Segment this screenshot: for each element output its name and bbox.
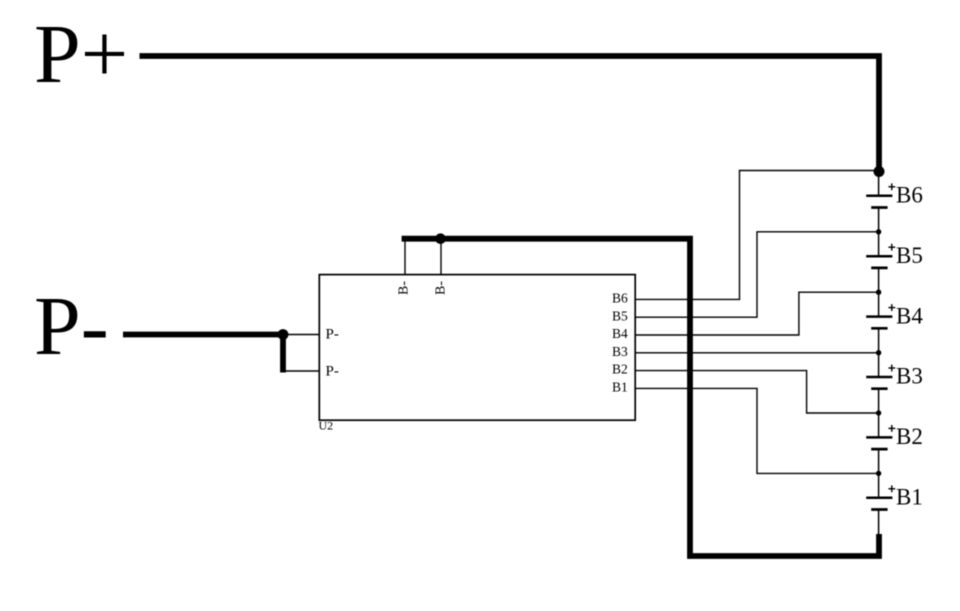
wire P- thick: from P- label right, then short drop to second pin: [123, 335, 283, 373]
wire stub B- pin 2 to IC top: [440, 239, 442, 275]
wire B5 sense: IC pin B5 to node between B6 and B5: [635, 232, 878, 317]
svg-text:B1: B1: [896, 485, 923, 510]
battery B1 plus mark: [888, 485, 895, 492]
node junction dot between B3 and B2: [876, 410, 881, 415]
wire stub P- to IC pin 2: [283, 370, 319, 372]
battery B6 plus mark: [888, 183, 895, 190]
node junction dot between B2 and B1: [876, 471, 881, 476]
wire B1 negative down to thick B- net: [878, 510, 880, 537]
svg-text:B4: B4: [896, 303, 923, 328]
wire B5 to node: [878, 268, 880, 317]
svg-text:P+: P+: [34, 8, 128, 101]
svg-text:B3: B3: [612, 344, 628, 359]
wire B4 sense: IC pin B4 to node between B5 and B4: [635, 292, 878, 335]
battery B2 plus mark: [888, 425, 895, 432]
node junction dot at B6 positive / P+ wire: [874, 166, 885, 177]
wire P+ thick: from P+ label right along top, down to battery stack top: [140, 56, 880, 171]
svg-text:B2: B2: [612, 362, 628, 377]
node junction dot on P- wire: [278, 329, 289, 340]
wire stub B- pin 1 to IC top: [404, 239, 406, 275]
battery B2: [866, 437, 892, 449]
svg-text:P-: P-: [326, 327, 339, 343]
wire B4 to node: [878, 328, 880, 377]
svg-text:B4: B4: [612, 326, 628, 341]
wire B2 sense: IC pin B2 to node between B3 and B2: [635, 371, 878, 413]
wire B1 sense: IC pin B1 to node between B2 and B1: [635, 388, 878, 473]
svg-text:B-: B-: [434, 281, 449, 295]
wire stub P- to IC pin 1: [283, 334, 319, 336]
node junction dot between B5 and B4: [876, 290, 881, 295]
battery B1: [866, 498, 892, 510]
battery B4 plus mark: [888, 304, 895, 311]
node junction dot between B6 and B5: [876, 229, 881, 234]
wire B3 sense: IC pin B3 straight to node between B4 and B3: [635, 352, 878, 354]
battery B4: [866, 317, 892, 329]
svg-text:P-: P-: [34, 280, 109, 373]
svg-text:P-: P-: [326, 364, 339, 380]
svg-text:B-: B-: [397, 281, 412, 295]
svg-text:B5: B5: [612, 308, 628, 323]
svg-text:B5: B5: [896, 243, 923, 268]
node junction dot between B4 and B3: [876, 350, 881, 355]
wire B6 sense: IC pin B6 to top junction: [635, 171, 874, 300]
battery B5 plus mark: [888, 244, 895, 251]
battery B3 plus mark: [888, 365, 895, 372]
wire B6 to node: [878, 208, 880, 257]
wire B- thick net: from IC top pins right, down, along bottom, up to battery B1 negative: [402, 239, 879, 556]
battery B6: [866, 196, 892, 208]
battery B3: [866, 377, 892, 389]
svg-text:B6: B6: [896, 183, 923, 208]
wire B2 to node: [878, 449, 880, 498]
wire from junction down to battery B6: [878, 171, 880, 196]
svg-text:B3: B3: [896, 364, 923, 389]
wire B3 to node: [878, 389, 880, 438]
battery B5: [866, 256, 892, 268]
svg-text:B1: B1: [612, 380, 628, 395]
svg-text:B2: B2: [896, 424, 923, 449]
IC U2 body: [319, 275, 635, 421]
svg-text:U2: U2: [319, 419, 334, 433]
node junction dot on B- net above IC: [435, 233, 446, 244]
svg-text:B6: B6: [612, 291, 628, 306]
